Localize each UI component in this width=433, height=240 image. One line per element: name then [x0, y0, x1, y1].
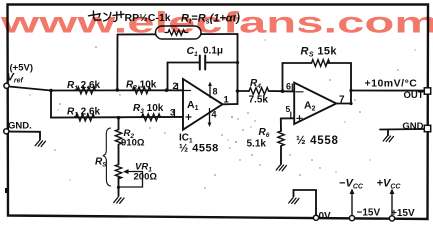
svg-text:1: 1	[224, 95, 230, 106]
svg-text:GND.: GND.	[8, 121, 32, 132]
scan noise specks	[29, 27, 415, 188]
svg-text:6: 6	[286, 82, 291, 92]
wire: A1 output to rail	[223, 103, 238, 105]
terminal -15V circle	[349, 216, 354, 221]
resistor R4 zigzag	[249, 88, 269, 95]
A2 pin5 tick and plus	[291, 112, 302, 121]
svg-text:8: 8	[213, 87, 218, 97]
svg-text:www.elecfans.com: www.elecfans.com	[0, 7, 433, 40]
-Vcc arrow	[351, 192, 353, 216]
VR1 wiper arrow	[119, 172, 143, 188]
A1 pin8 arrow	[209, 84, 211, 98]
resistor R1 (2.6k, upper)	[77, 87, 96, 94]
resistor R2' (2.6k, lower)	[76, 114, 95, 121]
svg-text:910Ω: 910Ω	[121, 138, 145, 149]
label: sensor katakana	[89, 11, 125, 22]
svg-text:R3 10k: R3 10k	[126, 80, 157, 92]
ground (sensor chain)	[114, 197, 124, 203]
wire: thermistor top line	[118, 33, 238, 36]
wire: A2 pin6	[283, 90, 295, 92]
resistor R2 910 ohm vertical	[115, 130, 121, 145]
ground (0V)	[289, 198, 299, 204]
feedback wire up left	[283, 63, 312, 91]
svg-text:OUT: OUT	[403, 90, 423, 101]
svg-text:+10mV/°C: +10mV/°C	[365, 78, 418, 90]
terminal GND circle	[4, 129, 9, 134]
feedback wire right and down	[327, 63, 351, 104]
resistor R4' (10k, lower)	[142, 114, 161, 121]
border tick left	[5, 188, 9, 193]
wire: right rail of A1 (thermistor/C1/output)	[237, 34, 239, 104]
A1 pin2 tick	[178, 84, 191, 91]
wire: OUT line	[351, 90, 425, 92]
resistor R6 5.1k chain	[280, 118, 282, 131]
A2 pin6 tick and minus	[292, 84, 303, 92]
0V branch	[294, 190, 317, 218]
svg-text:3: 3	[170, 108, 175, 118]
A2 pin5 wire	[281, 117, 294, 119]
svg-text:0.1μ: 0.1μ	[203, 46, 223, 57]
potentiometer VR1 200 ohm	[115, 165, 121, 179]
terminal Vref circle	[4, 83, 9, 88]
thermistor zigzag	[165, 30, 188, 36]
wire: row2 to A1 pin3	[51, 116, 183, 119]
capacitor C1 wires	[168, 62, 238, 64]
svg-text:GND: GND	[402, 121, 423, 132]
svg-text:5.1k: 5.1k	[247, 139, 267, 150]
sensitivity chain: wire row2 node down	[118, 118, 120, 130]
Rs brace	[103, 128, 111, 186]
resistor R5 15k zigzag	[312, 60, 330, 67]
svg-text:½ 4558: ½ 4558	[296, 135, 339, 147]
svg-text:0V: 0V	[319, 211, 332, 222]
svg-text:½ 4558: ½ 4558	[179, 143, 219, 155]
svg-text:200Ω: 200Ω	[134, 172, 158, 183]
A1 pin3 tick and plus	[175, 110, 192, 120]
svg-text:R1 2.6k: R1 2.6k	[67, 107, 101, 119]
svg-text:RS 15k: RS 15k	[301, 46, 338, 59]
wire: A2 output	[336, 103, 351, 105]
left GND terminal wire	[9, 132, 41, 140]
wire VR1 bottom to ground	[118, 177, 120, 197]
terminal OUT square	[424, 88, 430, 94]
resistor R4 7.5k wires	[238, 90, 283, 92]
ground (right GND)	[383, 136, 393, 142]
svg-text:5: 5	[286, 104, 291, 114]
op-amp A2 triangle	[294, 83, 336, 124]
terminal +15V circle	[389, 216, 394, 221]
right GND wire	[380, 128, 425, 131]
svg-text:4: 4	[212, 110, 217, 120]
svg-text:R1 2.6k: R1 2.6k	[67, 80, 101, 92]
thermistor RP capsule	[156, 26, 202, 39]
op-amp A1 triangle	[183, 79, 223, 130]
svg-text:2: 2	[173, 81, 178, 91]
svg-text:7.5k: 7.5k	[249, 95, 269, 106]
svg-text:7: 7	[339, 95, 345, 106]
ground (left GND)	[35, 141, 45, 147]
ground (R6)	[276, 165, 286, 171]
wire between R2 and VR1	[118, 145, 120, 165]
svg-text:−15V: −15V	[357, 208, 381, 219]
terminal 0V circle	[313, 215, 318, 220]
wire: C1 to pin2	[167, 63, 169, 91]
+Vcc arrow	[391, 192, 393, 216]
wire: thermistor left riser	[116, 35, 118, 90]
wire: Vref row1 from terminal to A1 pin2	[9, 87, 183, 91]
svg-text:R3 10k: R3 10k	[133, 103, 164, 115]
wire: vertical Vref split	[50, 91, 52, 118]
A1 pin4 arrow	[209, 109, 211, 124]
terminal GND square	[424, 125, 430, 131]
svg-text:+15V: +15V	[391, 208, 415, 219]
resistor R3 (10k, upper)	[133, 87, 151, 94]
capacitor C1 plates	[200, 56, 205, 70]
